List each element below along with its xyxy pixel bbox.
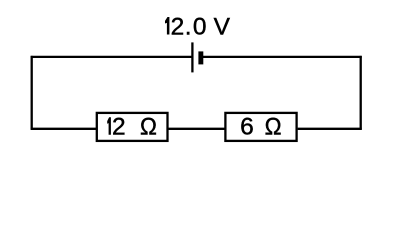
battery V1 long plate [191,42,193,72]
battery V1 short thick plate [198,51,203,64]
wire bottom segment middle [169,128,226,130]
svg-text:Ω: Ω [140,113,157,140]
wire top-left segment [31,56,192,58]
svg-text:Ω: Ω [265,113,282,140]
wire right vertical [360,56,362,130]
resistor R2 box [225,113,296,141]
battery V1 value label 12.0 V [165,14,231,41]
wire top-right segment [202,56,362,58]
resistor R2 value label 6 ohm [240,113,281,141]
wire bottom segment right [298,128,362,130]
svg-text:2: 2 [171,14,185,41]
svg-text:.: . [185,14,192,41]
resistor R1 box [97,113,168,141]
wire left vertical [31,56,33,130]
svg-text:0: 0 [193,14,207,41]
resistor R1 value label 12 ohm [107,113,157,141]
svg-text:2: 2 [112,114,126,141]
svg-text:6: 6 [240,114,254,141]
svg-text:V: V [214,14,231,41]
wire bottom segment left [31,128,97,130]
